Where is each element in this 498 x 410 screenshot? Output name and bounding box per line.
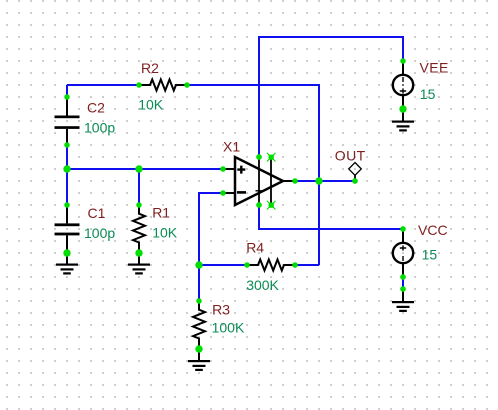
svg-text:300K: 300K <box>246 277 279 293</box>
svg-text:10K: 10K <box>152 225 178 241</box>
svg-text:15: 15 <box>422 246 438 262</box>
svg-text:X1: X1 <box>223 139 240 155</box>
svg-text:OUT: OUT <box>335 148 366 164</box>
svg-text:R4: R4 <box>246 240 264 256</box>
svg-text:15: 15 <box>420 86 436 102</box>
svg-text:R1: R1 <box>152 204 170 220</box>
svg-text:C1: C1 <box>88 205 106 221</box>
svg-text:C2: C2 <box>87 100 105 116</box>
svg-text:VCC: VCC <box>418 222 448 238</box>
svg-text:100p: 100p <box>84 225 115 241</box>
svg-text:10K: 10K <box>138 97 164 113</box>
svg-text:100K: 100K <box>212 319 245 335</box>
svg-text:VEE: VEE <box>420 60 449 76</box>
svg-text:R3: R3 <box>212 301 230 317</box>
svg-text:100p: 100p <box>84 119 115 135</box>
svg-text:R2: R2 <box>141 60 159 76</box>
